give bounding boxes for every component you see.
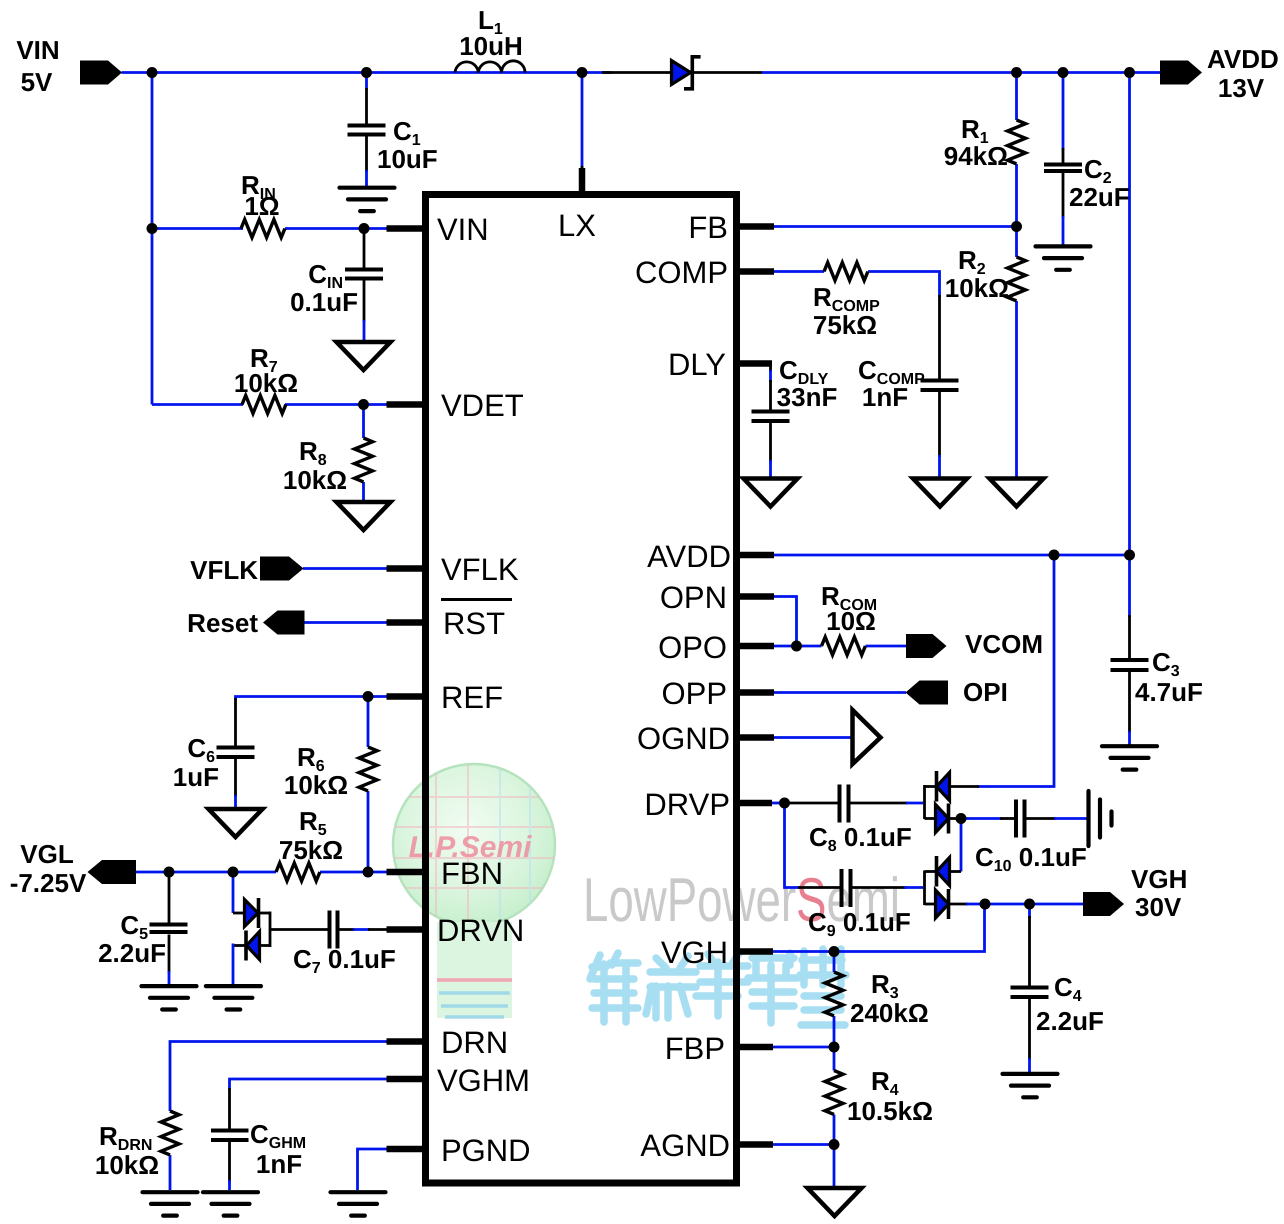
wire FB net to R1/R2 divider: [773, 225, 1017, 228]
watermark chinese characters: [590, 949, 846, 1025]
node FBP / R3 / R4: [829, 1042, 840, 1053]
wire R8 branch x=363.5: [362, 405, 365, 502]
pin stub VGHM: [387, 1076, 425, 1083]
ground PGND (earth bars): [331, 1192, 386, 1215]
svg-text:VFLK: VFLK: [441, 552, 519, 587]
svg-text:0.1uF: 0.1uF: [290, 287, 358, 317]
wire D4 junction leads: [925, 871, 962, 906]
node FBN C5: [164, 867, 175, 878]
svg-text:DRVN: DRVN: [437, 913, 524, 948]
resistor R4: [825, 1066, 933, 1126]
node OPO / OPN: [791, 641, 802, 652]
resistor R2: [945, 245, 1026, 303]
pin stub VGH: [738, 948, 773, 955]
svg-text:5V: 5V: [21, 67, 53, 97]
svg-text:LX: LX: [558, 208, 596, 243]
node VGH out / D4: [980, 899, 991, 910]
wire REF net to C6 and R6: [236, 697, 389, 809]
svg-text:10kΩ: 10kΩ: [945, 273, 1009, 303]
wire OGND to open triangle: [773, 736, 853, 739]
node DRVP: [779, 798, 790, 809]
wire CIN branch x=364: [363, 229, 366, 342]
wire D2 junction bar to C7 to DRVN: [259, 912, 389, 948]
wire COMP net through RCOMP to CCOMP: [773, 272, 940, 478]
wire DLY to CDLY: [769, 364, 772, 478]
pin stub OGND: [738, 734, 774, 741]
pin stub OPN: [738, 593, 774, 600]
svg-text:OPI: OPI: [963, 677, 1008, 707]
wire C3 lower lead: [1128, 672, 1131, 745]
diode D1 zener/schottky at LX output: [672, 57, 701, 89]
wire R2 branch to ground: [1015, 227, 1018, 478]
capacitor CDLY: [752, 355, 838, 421]
node AVDD rail tap: [1124, 67, 1135, 78]
ground C5 (earth bars): [142, 986, 197, 1009]
resistor R8: [283, 436, 373, 495]
svg-text:OPN: OPN: [660, 580, 727, 615]
wire top VIN rail (y=72.5): [122, 71, 1161, 74]
capacitor C5: [98, 910, 187, 968]
node VIN pin / CIN: [359, 223, 370, 234]
ground R8 (triangle): [337, 502, 391, 530]
svg-text:94kΩ: 94kΩ: [944, 141, 1008, 171]
capacitor C10: [975, 800, 1087, 876]
capacitor C3: [1111, 647, 1203, 707]
capacitor C4: [1011, 972, 1104, 1036]
wire RIN row to VIN pin: [152, 227, 388, 230]
svg-text:OPP: OPP: [662, 676, 727, 711]
node C2 tap: [1058, 67, 1069, 78]
node REF / R6 / C6: [363, 691, 374, 702]
wire VGL / FBN row: [136, 871, 388, 874]
svg-text:10kΩ: 10kΩ: [95, 1150, 159, 1180]
pin stub VDET: [387, 401, 425, 408]
ground C10 (earth bars rotated right): [1089, 791, 1112, 846]
watermark light bulb logo: [393, 764, 556, 1018]
svg-text:FBP: FBP: [665, 1031, 725, 1066]
svg-text:30V: 30V: [1135, 892, 1182, 922]
wire LX branch x=582: [581, 73, 584, 195]
pin stub COMP: [738, 268, 774, 275]
resistor RDRN: [95, 1111, 179, 1180]
resistor R1: [944, 114, 1026, 171]
inductor L1: [455, 5, 525, 73]
svg-text:C10 0.1uF: C10 0.1uF: [975, 842, 1087, 875]
resistor R5: [276, 806, 343, 881]
ground RDRN (earth bars): [143, 1192, 198, 1215]
flag AVDD output with label: [1160, 44, 1279, 103]
svg-text:C8 0.1uF: C8 0.1uF: [809, 822, 912, 855]
svg-text:10kΩ: 10kΩ: [234, 368, 298, 398]
svg-text:VIN: VIN: [437, 212, 489, 247]
wire R7 row to VDET pin: [152, 403, 388, 406]
pin stub DRVP: [738, 800, 772, 807]
node RIN row left: [147, 223, 158, 234]
wire VGH output row y=904: [949, 903, 1084, 906]
svg-text:4.7uF: 4.7uF: [1135, 677, 1203, 707]
wire D3 output node to C10: [961, 817, 1087, 820]
wire D3 junction leads: [925, 785, 962, 819]
pin stub DLY: [738, 360, 772, 367]
ground C1 (earth bars): [340, 188, 395, 211]
ground OGND (open triangle right): [853, 710, 881, 764]
wire AVDD pin row: [773, 554, 1130, 557]
svg-text:75kΩ: 75kΩ: [813, 310, 877, 340]
ground CIN (triangle): [337, 342, 391, 370]
resistor R3: [825, 969, 929, 1028]
pin stub VIN: [387, 225, 425, 232]
svg-text:FB: FB: [688, 210, 728, 245]
svg-text:DRVP: DRVP: [644, 787, 730, 822]
wire R1 branch x=1016.5: [1015, 73, 1018, 227]
flag VFLK input with label: [190, 555, 303, 585]
svg-text:DRN: DRN: [441, 1025, 508, 1060]
capacitor C1: [348, 116, 438, 174]
node AVDD row branch: [1049, 550, 1060, 561]
pin label RST with overline: [441, 600, 512, 642]
node FB divider: [1011, 221, 1022, 232]
ground CCOMP (triangle): [913, 479, 967, 507]
svg-text:REF: REF: [441, 680, 503, 715]
flag VCOM output with label: [906, 629, 1043, 659]
ground C2 (earth bars): [1036, 246, 1091, 269]
ground C3 (earth bars): [1102, 746, 1157, 769]
flag Reset output with label: [187, 608, 304, 638]
resistor RCOM: [821, 581, 877, 655]
pin stub DRVN: [387, 926, 425, 933]
pin stub PGND: [387, 1146, 425, 1153]
svg-text:VGHM: VGHM: [437, 1063, 530, 1098]
ground C4 (earth bars): [1003, 1074, 1058, 1097]
node C1 tap: [361, 67, 372, 78]
svg-text:1nF: 1nF: [862, 382, 908, 412]
svg-text:33nF: 33nF: [777, 382, 838, 412]
resistor R7: [234, 343, 298, 414]
svg-text:10uH: 10uH: [459, 31, 523, 61]
svg-text:OPO: OPO: [658, 630, 727, 665]
pin stub DRN: [387, 1038, 425, 1045]
pin stub OPP: [738, 689, 774, 696]
svg-text:2.2uF: 2.2uF: [1036, 1006, 1104, 1036]
wire R6 branch x=368: [367, 697, 370, 873]
wire OPN to OPO loop: [773, 597, 797, 647]
svg-text:1Ω: 1Ω: [244, 191, 279, 221]
pin stub AGND: [738, 1141, 773, 1148]
svg-text:VFLK: VFLK: [190, 555, 258, 585]
svg-text:22uF: 22uF: [1069, 182, 1130, 212]
svg-text:PGND: PGND: [441, 1133, 531, 1168]
diode pair D4 (top diode left-pointing): [937, 856, 950, 887]
svg-text:Reset: Reset: [187, 608, 258, 638]
capacitor CCOMP: [858, 355, 959, 412]
capacitor C9: [808, 869, 911, 940]
svg-text:C7 0.1uF: C7 0.1uF: [293, 944, 396, 977]
flag VGL output with label: [10, 839, 136, 898]
svg-text:VCOM: VCOM: [965, 629, 1043, 659]
capacitor CIN: [290, 259, 383, 317]
node VIN rail left: [147, 67, 158, 78]
flag VIN input with label: [16, 35, 122, 97]
wire R4 branch: [833, 1047, 836, 1145]
flag OPI input with label: [906, 677, 1008, 707]
svg-text:VDET: VDET: [441, 388, 524, 423]
pin stub FBN: [387, 869, 425, 876]
pin stub VFLK: [387, 565, 425, 572]
resistor RIN: [241, 170, 285, 238]
pin stub REF: [387, 693, 425, 700]
flag VGH output with label: [1083, 864, 1187, 922]
wire DRVP down to C9 row x=784.5: [785, 803, 801, 888]
wire AGND row: [772, 1145, 834, 1188]
wire C1 branch: [365, 73, 368, 187]
wire OPO to RCOM to VCOM: [773, 645, 906, 648]
node LX tap: [577, 67, 588, 78]
svg-text:RST: RST: [443, 606, 505, 641]
svg-text:1uF: 1uF: [173, 762, 219, 792]
ground CDLY (triangle): [744, 479, 798, 507]
pin stub OPO: [738, 643, 774, 650]
capacitor C2: [1044, 154, 1130, 212]
wire AVDD branch down to charge pump x=1054: [950, 555, 1055, 787]
svg-text:AVDD: AVDD: [1207, 44, 1279, 74]
node VGH pin / R3: [829, 946, 840, 957]
capacitor C6: [173, 733, 255, 792]
ground AGND (triangle): [808, 1188, 862, 1216]
svg-text:COMP: COMP: [635, 255, 728, 290]
capacitor C7: [293, 911, 396, 978]
resistor RCOMP: [813, 263, 880, 341]
svg-text:240kΩ: 240kΩ: [850, 998, 929, 1028]
svg-text:VGH: VGH: [661, 935, 728, 970]
pin stub LX: [579, 168, 586, 196]
node FBN pin / R5 / R6: [363, 867, 374, 878]
op-amp IC U1 box: [426, 195, 737, 1184]
wire VGHM row to CGHM: [230, 1079, 389, 1190]
node AVDD row right: [1124, 550, 1135, 561]
ground C6 (triangle): [209, 809, 263, 837]
svg-text:FBN: FBN: [441, 856, 503, 891]
svg-text:13V: 13V: [1218, 73, 1265, 103]
wire VGH pin row y=951.5: [772, 904, 985, 952]
wire Reset input: [304, 621, 388, 624]
pin stub FBP: [738, 1044, 773, 1051]
wire OPP to OPI flag: [773, 691, 906, 694]
svg-text:1nF: 1nF: [256, 1149, 302, 1179]
watermark LowPowerSemi text: [583, 866, 900, 935]
diode pair D2 (top diode right-pointing): [245, 898, 259, 928]
svg-text:10.5kΩ: 10.5kΩ: [847, 1096, 933, 1126]
svg-text:DLY: DLY: [668, 347, 726, 382]
wire DRN row to RDRN: [170, 1042, 388, 1191]
capacitor C8: [809, 785, 912, 856]
node AGND / R4: [829, 1139, 840, 1150]
node VDET pin / R8: [358, 399, 369, 410]
node FBN D2: [228, 867, 239, 878]
node VGH out / C4: [1024, 899, 1035, 910]
svg-text:10uF: 10uF: [377, 144, 438, 174]
node R1 tap: [1011, 67, 1022, 78]
wire diode pair D2 branch x=233: [233, 872, 246, 984]
pin stub FB: [738, 223, 774, 230]
diode pair D3 (bottom diode right-pointing): [936, 804, 949, 834]
wire C4 branch x=1029.5: [1028, 904, 1031, 1072]
pin stub RST: [387, 619, 425, 626]
wire C9 row: [798, 886, 923, 889]
resistor R6: [284, 742, 377, 800]
svg-text:VIN: VIN: [16, 35, 59, 65]
wire VIN left vertical branch x=152: [151, 73, 154, 405]
wire D3 node down to D4 x=961: [960, 819, 963, 872]
diode pair D2 (bottom diode left-pointing): [246, 931, 260, 961]
svg-text:10Ω: 10Ω: [826, 606, 876, 636]
svg-text:OGND: OGND: [637, 721, 730, 756]
svg-text:10kΩ: 10kΩ: [283, 465, 347, 495]
pin stub AVDD: [738, 552, 774, 559]
svg-text:VGL: VGL: [20, 839, 74, 869]
ground R2 (triangle): [990, 479, 1044, 507]
svg-text:-7.25V: -7.25V: [10, 868, 87, 898]
wire C2 branch x=1063: [1062, 73, 1065, 245]
wire PGND to ground: [358, 1149, 389, 1190]
wire AVDD right vertical x=1129.5: [1128, 73, 1131, 659]
wire DRVP row to C8: [771, 802, 923, 805]
diode pair D3 (top diode left-pointing): [937, 771, 950, 802]
svg-text:10kΩ: 10kΩ: [284, 770, 348, 800]
wire VFLK input: [303, 567, 388, 570]
svg-text:VGH: VGH: [1131, 864, 1187, 894]
svg-text:AVDD: AVDD: [647, 539, 731, 574]
node D3 output: [956, 813, 967, 824]
wire R3 branch x=834: [833, 952, 836, 1048]
capacitor CGHM: [211, 1119, 306, 1179]
svg-text:C9 0.1uF: C9 0.1uF: [808, 907, 911, 940]
svg-text:2.2uF: 2.2uF: [98, 938, 166, 968]
ground D2 (earth bars): [206, 986, 261, 1009]
diode pair D4 (bottom diode right-pointing): [936, 889, 949, 919]
wire C5 branch x=169: [168, 872, 171, 984]
wire FBP row: [772, 1046, 834, 1049]
ground CGHM (earth bars): [203, 1192, 258, 1215]
svg-text:75kΩ: 75kΩ: [279, 835, 343, 865]
svg-text:AGND: AGND: [640, 1128, 730, 1163]
